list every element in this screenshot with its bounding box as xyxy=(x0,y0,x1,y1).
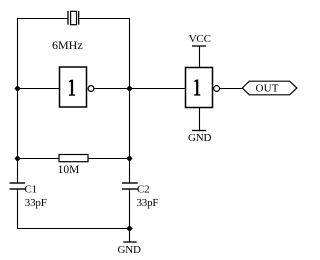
wire: left vertical rail upper (corner to C1 top plate) xyxy=(17,18,19,183)
node junction at U1 output / right rail xyxy=(126,85,132,91)
op-amp U1 (inverter box) xyxy=(60,67,87,107)
svg-text:33pF: 33pF xyxy=(137,197,159,209)
U2 output bubble xyxy=(214,86,220,92)
capacitor C2 top plate xyxy=(122,182,138,184)
resistor R1 body xyxy=(59,155,88,162)
wire: right vertical rail lower (C2 bottom plate to bottom wire) xyxy=(129,189,131,229)
capacitor C1 top plate xyxy=(10,182,26,184)
svg-text:OUT: OUT xyxy=(256,83,279,95)
svg-text:C1: C1 xyxy=(25,184,37,196)
wire: output of U1 to input of U2 xyxy=(94,88,186,90)
wire: output of U2 to OUT port xyxy=(220,88,243,90)
wire: left rail to resistor R1 xyxy=(18,158,60,160)
U2 gate symbol 1 xyxy=(194,79,200,95)
wire: input of U1 xyxy=(18,88,60,90)
svg-text:6MHz: 6MHz xyxy=(52,38,83,52)
crystal Y1 right plate xyxy=(78,11,80,25)
svg-text:GND: GND xyxy=(188,132,211,144)
svg-text:GND: GND xyxy=(118,244,141,256)
crystal Y1 left plate xyxy=(67,11,69,25)
node junction at R1 left / left rail xyxy=(14,155,20,161)
capacitor C1 bottom plate xyxy=(10,188,26,190)
wire: right vertical rail upper (top corner to C2 top plate) xyxy=(129,18,131,183)
wire: crystal to top-right corner xyxy=(79,18,130,20)
wire: VCC stub to U2 xyxy=(199,47,201,69)
VCC power bar xyxy=(192,45,206,47)
node junction at U1 input rail xyxy=(14,85,20,91)
wire: left vertical rail lower (C1 bottom plate to bottom corner) xyxy=(17,189,19,229)
wire: bottom junction to GND stub xyxy=(129,229,131,243)
node junction at bottom GND xyxy=(126,225,132,231)
ground bar under U2 xyxy=(192,130,206,132)
crystal Y1 body xyxy=(71,11,77,24)
capacitor C2 bottom plate xyxy=(122,188,138,190)
op-amp U2 (inverter box) xyxy=(186,68,213,108)
svg-text:C2: C2 xyxy=(137,184,149,196)
wire: resistor R1 to right rail xyxy=(88,158,130,160)
svg-text:VCC: VCC xyxy=(189,33,211,45)
svg-text:33pF: 33pF xyxy=(25,197,47,209)
port OUT flag xyxy=(242,81,297,95)
wire: bottom horizontal xyxy=(17,228,130,230)
U1 gate symbol 1 xyxy=(69,80,75,96)
node junction at R1 right / right rail xyxy=(126,155,132,161)
ground bar at bottom xyxy=(123,241,136,243)
wire: top-left horizontal from left rail to crystal xyxy=(17,18,68,20)
U1 output bubble xyxy=(88,86,94,92)
svg-text:10M: 10M xyxy=(58,164,80,176)
wire: U2 to GND stub xyxy=(199,108,201,131)
